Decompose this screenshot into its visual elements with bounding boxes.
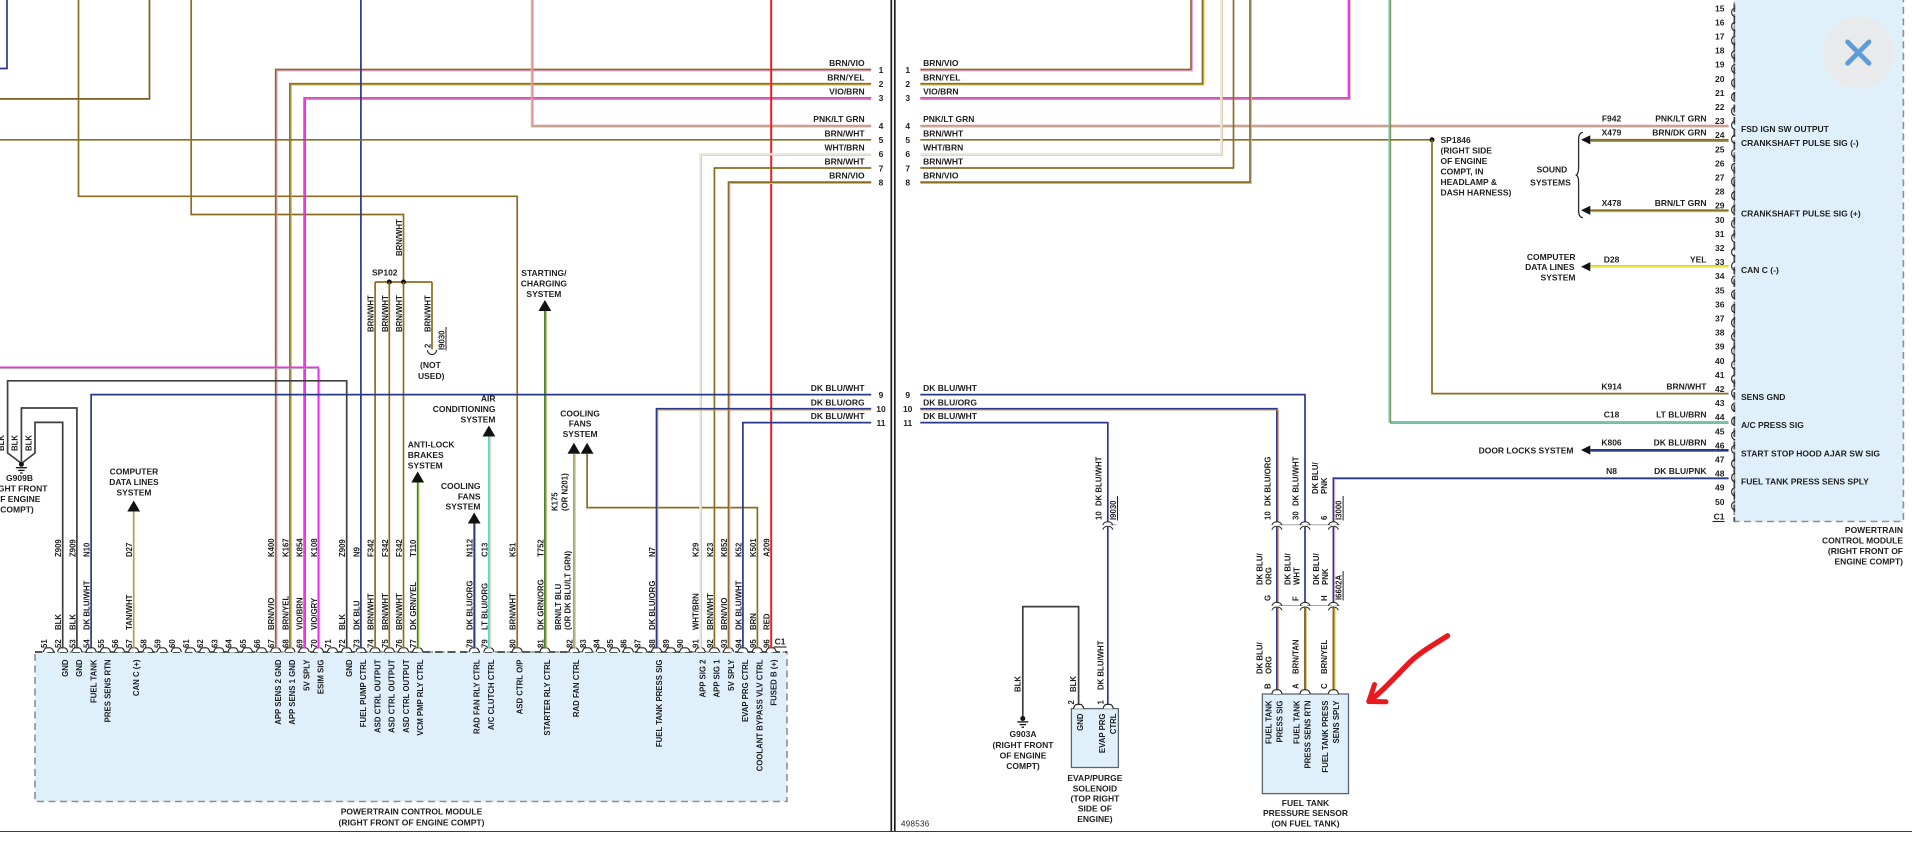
page divider between left and right schematic pages: [890, 0, 892, 832]
svg-text:42: 42: [1715, 384, 1725, 394]
svg-text:C1: C1: [775, 637, 786, 647]
svg-text:FANS: FANS: [458, 491, 481, 501]
svg-text:22: 22: [1715, 102, 1725, 112]
svg-text:8: 8: [879, 177, 884, 187]
svg-text:APP SENS 2 GND: APP SENS 2 GND: [274, 659, 283, 725]
svg-text:66: 66: [253, 639, 262, 648]
svg-text:FUEL TANK: FUEL TANK: [89, 659, 98, 703]
svg-text:LT BLU/BRN: LT BLU/BRN: [1656, 410, 1706, 420]
svg-text:C18: C18: [1604, 410, 1620, 420]
svg-text:DK BLU/WHT: DK BLU/WHT: [1094, 456, 1103, 506]
svg-text:8: 8: [905, 177, 910, 187]
svg-text:39: 39: [1715, 342, 1725, 352]
svg-text:21: 21: [1715, 88, 1725, 98]
svg-text:(RIGHT FRONT: (RIGHT FRONT: [993, 740, 1055, 750]
wire dk blu/wht row 11 to evap purge solenoid pin 1: [920, 423, 1108, 705]
svg-text:24: 24: [1715, 130, 1725, 140]
wire dk blu/wht row 9 to fuel tank pressure sensor pin A: [920, 395, 1305, 691]
svg-text:7: 7: [905, 163, 910, 173]
svg-text:BRN/YEL: BRN/YEL: [923, 72, 960, 82]
svg-text:ENGINE COMPT): ENGINE COMPT): [1835, 557, 1904, 567]
svg-text:(RIGHT FRONT OF ENGINE COMPT): (RIGHT FRONT OF ENGINE COMPT): [339, 818, 485, 828]
svg-text:YEL: YEL: [1690, 254, 1707, 264]
svg-text:SYSTEM: SYSTEM: [117, 488, 152, 498]
fuel tank pressure sensor box: [1262, 694, 1348, 794]
ground G909B symbol: [19, 462, 24, 467]
PCM left module box top edge: [35, 651, 787, 653]
svg-text:6: 6: [1320, 515, 1329, 520]
svg-text:(ON FUEL TANK): (ON FUEL TANK): [1271, 818, 1339, 828]
wire pnk/lt grn row 4 to PCM pin 23 F942: [920, 125, 1728, 127]
svg-text:GND: GND: [1076, 713, 1085, 731]
svg-text:FUEL TANK: FUEL TANK: [1282, 798, 1330, 808]
svg-text:61: 61: [182, 639, 191, 648]
svg-text:K175: K175: [551, 492, 560, 511]
svg-text:CHARGING: CHARGING: [521, 279, 568, 289]
svg-text:APP SENS 1 GND: APP SENS 1 GND: [288, 659, 297, 725]
arrow to computer data lines system (pin 33): [1581, 262, 1590, 271]
svg-text:DK BLU/ORG: DK BLU/ORG: [811, 397, 865, 407]
svg-text:27: 27: [1715, 173, 1725, 183]
evap purge solenoid box: [1071, 709, 1118, 768]
svg-text:19: 19: [1715, 60, 1725, 70]
arrow to sound systems (pin 24): [1581, 135, 1590, 144]
svg-text:C: C: [1320, 683, 1329, 689]
svg-text:11: 11: [877, 418, 886, 428]
svg-text:10: 10: [1094, 511, 1103, 520]
svg-text:FANS: FANS: [569, 419, 592, 429]
svg-text:RAD FAN RLY CTRL: RAD FAN RLY CTRL: [473, 659, 482, 734]
svg-text:OF ENGINE: OF ENGINE: [0, 494, 41, 504]
svg-text:38: 38: [1715, 328, 1725, 338]
wire red pin 96 FUSED B (+) from top edge: [770, 0, 772, 649]
wire brn pin 95 COOLANT BYPASS VLV CTRL: [587, 454, 757, 649]
svg-text:20: 20: [1715, 74, 1725, 84]
svg-text:APP SIG 1: APP SIG 1: [713, 659, 722, 698]
svg-text:SYSTEM: SYSTEM: [526, 289, 561, 299]
svg-text:EVAP/PURGE: EVAP/PURGE: [1067, 773, 1122, 783]
inline connector I6602A break on wire A: [1303, 603, 1307, 608]
wire brn/vio row 8 right page to top edge: [920, 0, 1250, 182]
svg-text:9: 9: [905, 390, 910, 400]
svg-text:K914: K914: [1601, 381, 1622, 391]
svg-text:41: 41: [1715, 370, 1725, 380]
svg-text:DK BLU/PNK: DK BLU/PNK: [1654, 466, 1707, 476]
svg-text:SYSTEMS: SYSTEMS: [1530, 177, 1571, 187]
wire brn/yel row 2 right page to top edge: [920, 0, 1202, 84]
wire brn/vio pin 67 APP SENS 2 GND to connector pin 1: [276, 70, 872, 649]
wire brn/lt blu pin 82 RAD FAN CTRL: [573, 454, 575, 649]
svg-text:DK BLU/WHT: DK BLU/WHT: [811, 383, 866, 393]
svg-text:48: 48: [1715, 469, 1725, 479]
svg-text:D28: D28: [1604, 254, 1620, 264]
svg-text:65: 65: [239, 639, 248, 648]
svg-text:FUSED B (+): FUSED B (+): [770, 659, 779, 706]
svg-text:H: H: [1320, 595, 1329, 601]
svg-text:SYSTEM: SYSTEM: [563, 429, 598, 439]
svg-text:(OR DK BLU/LT GRN): (OR DK BLU/LT GRN): [564, 550, 573, 630]
svg-text:26: 26: [1715, 158, 1725, 168]
svg-text:30: 30: [1292, 511, 1301, 520]
PCM right module box: [1734, 0, 1903, 522]
svg-text:DK BLU/: DK BLU/: [1284, 553, 1293, 585]
svg-text:I9030: I9030: [1109, 500, 1118, 520]
svg-text:40: 40: [1715, 356, 1725, 366]
svg-text:4: 4: [879, 121, 884, 131]
svg-text:SOUND: SOUND: [1537, 164, 1568, 174]
svg-text:10: 10: [1263, 511, 1272, 520]
svg-text:37: 37: [1715, 314, 1725, 324]
svg-text:PNK/LT GRN: PNK/LT GRN: [923, 114, 974, 124]
svg-text:FUEL TANK PRESS SIG: FUEL TANK PRESS SIG: [655, 660, 664, 748]
svg-text:G903A: G903A: [1010, 729, 1037, 739]
svg-text:(NOT: (NOT: [420, 360, 442, 370]
svg-text:47: 47: [1715, 455, 1725, 465]
svg-text:POWERTRAIN: POWERTRAIN: [1845, 525, 1903, 535]
arrow to cooling fans system (pin 78): [468, 513, 481, 524]
svg-text:56: 56: [111, 639, 120, 648]
wire lt blu/brn C18 from top edge to PCM pin 44 A/C PRESS SIG: [1389, 0, 1728, 422]
svg-text:87: 87: [633, 639, 642, 648]
wire vio/gry pin 70 ESIM SIG to left edge: [0, 367, 318, 648]
svg-text:DK BLU/WHT: DK BLU/WHT: [1292, 456, 1301, 506]
svg-text:5V SPLY: 5V SPLY: [302, 659, 311, 691]
svg-text:36: 36: [1715, 299, 1725, 309]
svg-text:X478: X478: [1602, 198, 1622, 208]
svg-text:FUEL TANK: FUEL TANK: [1293, 700, 1302, 744]
svg-text:BRN/LT GRN: BRN/LT GRN: [1655, 198, 1707, 208]
wire blk pin 72 to ground G909B: [8, 381, 347, 649]
svg-text:SIDE OF: SIDE OF: [1078, 804, 1112, 814]
svg-text:BLK: BLK: [11, 435, 20, 451]
svg-text:COMPUTER: COMPUTER: [1527, 252, 1576, 262]
svg-text:60: 60: [168, 639, 177, 648]
svg-text:35: 35: [1715, 285, 1725, 295]
svg-text:DK BLU/: DK BLU/: [1255, 553, 1264, 585]
inline connector I9030 link rule: [1108, 524, 1117, 526]
svg-text:28: 28: [1715, 187, 1725, 197]
svg-text:CAN C (+): CAN C (+): [132, 659, 141, 696]
svg-text:BRN/WHT: BRN/WHT: [395, 295, 404, 332]
wire brn/wht pin 92 APP SIG 1 to connector pin 7: [714, 168, 871, 649]
svg-text:COMPT, IN: COMPT, IN: [1441, 167, 1484, 177]
wire brn/wht from top edge to splice SP102: [191, 0, 403, 282]
svg-text:POWERTRAIN CONTROL MODULE: POWERTRAIN CONTROL MODULE: [341, 807, 483, 817]
svg-text:COMPT): COMPT): [1006, 761, 1040, 771]
svg-text:23: 23: [1715, 116, 1725, 126]
svg-text:DOOR LOCKS SYSTEM: DOOR LOCKS SYSTEM: [1479, 445, 1574, 455]
svg-text:44: 44: [1715, 412, 1725, 422]
splice SP102 bus: [375, 281, 432, 283]
arrow to door locks system (pin 46): [1581, 445, 1590, 454]
svg-text:ORG: ORG: [1264, 567, 1273, 585]
splice SP102 dot B: [401, 280, 406, 285]
arrow to sound systems (pin 29): [1581, 206, 1590, 215]
svg-text:WHT/BRN: WHT/BRN: [824, 143, 864, 153]
svg-text:RAD FAN CTRL: RAD FAN CTRL: [572, 659, 581, 717]
svg-text:ANTI-LOCK: ANTI-LOCK: [408, 440, 456, 450]
svg-text:BRN/LT BLU: BRN/LT BLU: [554, 583, 563, 630]
svg-text:I9030: I9030: [438, 330, 447, 350]
svg-text:34: 34: [1715, 271, 1725, 281]
ground G903A symbol: [1020, 716, 1025, 721]
svg-text:25: 25: [1715, 144, 1725, 154]
svg-text:C1: C1: [1714, 512, 1725, 522]
svg-text:SYSTEM: SYSTEM: [1541, 272, 1576, 282]
inline connector I6602A break on wire C: [1331, 603, 1335, 608]
svg-text:DK BLU/WHT: DK BLU/WHT: [923, 411, 978, 421]
wire dk blu stub at top-left corner: [0, 0, 7, 69]
svg-text:BRN/WHT: BRN/WHT: [923, 157, 964, 167]
svg-text:EVAP PRG: EVAP PRG: [1098, 714, 1107, 754]
inline connector I9030 break on evap wire: [1106, 522, 1110, 527]
svg-text:64: 64: [225, 639, 234, 648]
svg-text:COOLANT BYPASS VLV CTRL: COOLANT BYPASS VLV CTRL: [756, 659, 765, 771]
svg-text:2: 2: [905, 79, 910, 89]
svg-text:6: 6: [879, 149, 884, 159]
svg-text:HEADLAMP &: HEADLAMP &: [1441, 177, 1498, 187]
svg-text:CAN C (-): CAN C (-): [1741, 265, 1779, 275]
svg-text:B: B: [1263, 683, 1272, 689]
svg-text:DK BLU/BRN: DK BLU/BRN: [1654, 438, 1707, 448]
svg-text:COOLING: COOLING: [441, 481, 481, 491]
svg-text:30: 30: [1715, 215, 1725, 225]
svg-text:PRESSURE SENSOR: PRESSURE SENSOR: [1263, 808, 1348, 818]
svg-text:BRN/YEL: BRN/YEL: [1320, 640, 1329, 674]
svg-text:50: 50: [1715, 497, 1725, 507]
svg-text:GND: GND: [75, 659, 84, 677]
svg-text:G909B: G909B: [6, 473, 33, 483]
svg-text:BRN/VIO: BRN/VIO: [923, 58, 959, 68]
svg-text:ASD CTRL OUTPUT: ASD CTRL OUTPUT: [402, 659, 411, 733]
svg-text:71: 71: [324, 639, 333, 648]
svg-text:5: 5: [879, 135, 884, 145]
wire brn/dk grn X479 to PCM pin 24 CRANKSHAFT PULSE SIG (-): [1590, 139, 1728, 141]
svg-text:(RIGHT SIDE: (RIGHT SIDE: [1441, 146, 1493, 156]
wire yel D28 to PCM pin 33 CAN C (-): [1590, 266, 1728, 268]
inline connector I3000 break on wire C: [1331, 522, 1335, 527]
svg-text:STARTING/: STARTING/: [521, 268, 567, 278]
wire tan/wht pin 57 CAN C (+): [133, 512, 135, 649]
arrow to air conditioning system: [483, 426, 496, 437]
svg-text:PRESS SIG: PRESS SIG: [1276, 701, 1285, 743]
svg-text:ASD CTRL OUTPUT: ASD CTRL OUTPUT: [388, 659, 397, 733]
svg-text:BRN/VIO: BRN/VIO: [829, 171, 865, 181]
svg-text:33: 33: [1715, 257, 1725, 267]
svg-text:5V SPLY: 5V SPLY: [727, 659, 736, 691]
svg-text:DATA LINES: DATA LINES: [1525, 262, 1575, 272]
svg-text:BLK: BLK: [25, 435, 34, 451]
svg-text:DATA LINES: DATA LINES: [109, 477, 159, 487]
svg-text:VIO/BRN: VIO/BRN: [829, 86, 864, 96]
svg-text:ENGINE): ENGINE): [1077, 814, 1113, 824]
svg-text:VIO/BRN: VIO/BRN: [923, 86, 958, 96]
svg-text:A: A: [1292, 683, 1301, 689]
svg-text:CTRL: CTRL: [1109, 713, 1118, 734]
svg-text:10: 10: [876, 404, 886, 414]
svg-text:A/C CLUTCH CTRL: A/C CLUTCH CTRL: [487, 659, 496, 730]
wire lt blu/org pin 79 A/C CLUTCH CTRL: [488, 437, 490, 649]
wire brn/wht SP102 to pin 74: [374, 282, 376, 649]
arrow to computer data lines system: [127, 501, 140, 512]
svg-text:APP SIG 2: APP SIG 2: [699, 659, 708, 698]
svg-text:F942: F942: [1602, 113, 1622, 123]
svg-text:G: G: [1263, 595, 1272, 601]
svg-text:FUEL TANK PRESS SENS SPLY: FUEL TANK PRESS SENS SPLY: [1741, 477, 1869, 487]
svg-text:1: 1: [879, 65, 884, 75]
wire brn/wht row 5 from left edge to connector pin 5: [0, 139, 871, 141]
svg-text:4: 4: [905, 121, 910, 131]
svg-text:2: 2: [879, 79, 884, 89]
wire dk blu/pnk N8 PCM pin 48 to fuel tank pressure sensor pin C: [1333, 478, 1728, 690]
svg-text:PRESS SENS RTN: PRESS SENS RTN: [1304, 700, 1313, 768]
svg-text:(TOP RIGHT: (TOP RIGHT: [1070, 794, 1120, 804]
svg-text:55: 55: [97, 639, 106, 648]
wire dk grn/yel pin 77 VCM PMP RLY CTRL: [417, 483, 419, 649]
svg-text:X479: X479: [1602, 128, 1622, 138]
wire dk blu pin 73 FUEL PUMP CTRL to top edge: [360, 0, 362, 649]
sound systems brace: [1576, 133, 1583, 218]
svg-text:VCM PMP RLY CTRL: VCM PMP RLY CTRL: [416, 659, 425, 735]
sensor pin sockets: [1272, 690, 1282, 694]
wire brn/wht row 7 right page to top edge: [920, 0, 1233, 168]
svg-text:SP102: SP102: [372, 267, 398, 277]
splice SP1846 dot: [1430, 137, 1435, 142]
svg-text:BLK: BLK: [1013, 676, 1022, 692]
svg-text:31: 31: [1715, 229, 1725, 239]
wire dk blu/brn K806 to PCM pin 46 START STOP HOOD AJAR SW SIG: [1590, 449, 1728, 451]
svg-text:BRN/WHT: BRN/WHT: [1666, 381, 1707, 391]
svg-text:BRN/TAN: BRN/TAN: [1292, 639, 1301, 674]
svg-text:45: 45: [1715, 426, 1725, 436]
svg-text:63: 63: [210, 639, 219, 648]
inline connector I3000 break on wire A: [1303, 522, 1307, 527]
wire brn/wht SP102 to pin 75: [388, 282, 390, 649]
svg-text:OF ENGINE: OF ENGINE: [1000, 751, 1047, 761]
svg-text:46: 46: [1715, 440, 1725, 450]
wire dk blu/org row 10 to fuel tank pressure sensor pin B: [920, 409, 1277, 691]
svg-text:84: 84: [593, 639, 602, 648]
svg-text:DK BLU/: DK BLU/: [1312, 553, 1321, 585]
svg-text:SENS GND: SENS GND: [1741, 392, 1785, 402]
svg-text:11: 11: [903, 418, 912, 428]
svg-text:SOLENOID: SOLENOID: [1073, 783, 1117, 793]
svg-text:CRANKSHAFT PULSE SIG (+): CRANKSHAFT PULSE SIG (+): [1741, 209, 1861, 219]
svg-text:FUEL TANK PRESS: FUEL TANK PRESS: [1321, 701, 1330, 773]
svg-text:I3000: I3000: [1334, 500, 1343, 520]
svg-text:A/C PRESS SIG: A/C PRESS SIG: [1741, 420, 1804, 430]
svg-text:STARTER RLY CTRL: STARTER RLY CTRL: [543, 659, 552, 735]
wire blk evap solenoid pin 2 to ground G903A: [1023, 607, 1079, 716]
wire brn/wht from top edge to pin 80 ASD CTRL O/P: [79, 0, 518, 649]
wire brn/tan lower segment to sensor pin A: [1304, 608, 1306, 691]
svg-text:86: 86: [620, 639, 629, 648]
svg-text:9: 9: [879, 390, 884, 400]
svg-text:WHT/BRN: WHT/BRN: [923, 143, 963, 153]
arrow to starting/charging system: [539, 300, 552, 311]
svg-text:2: 2: [424, 343, 433, 348]
svg-text:1: 1: [905, 65, 910, 75]
wire brn/wht row 5 to splice SP1846: [920, 139, 1432, 141]
svg-text:SYSTEM: SYSTEM: [461, 415, 496, 425]
inline connector I6602A break on wire B: [1275, 603, 1279, 608]
svg-text:3: 3: [905, 93, 910, 103]
PCM left connector pin sockets row (pins 51-96): [43, 648, 53, 652]
wire brn/wht K914 SP1846 to PCM pin 42 SENS GND: [1432, 140, 1729, 394]
svg-text:BRN/VIO: BRN/VIO: [923, 171, 959, 181]
svg-text:GND: GND: [345, 659, 354, 677]
svg-text:PNK: PNK: [1320, 477, 1329, 494]
wire brn from left edge up to top edge: [0, 0, 150, 99]
svg-text:BRN/DK GRN: BRN/DK GRN: [1652, 128, 1706, 138]
svg-text:BRN/WHT: BRN/WHT: [824, 157, 865, 167]
svg-text:10: 10: [903, 404, 913, 414]
svg-text:43: 43: [1715, 398, 1725, 408]
PCM right module box left edge: [1733, 0, 1735, 522]
svg-text:6: 6: [905, 149, 910, 159]
svg-text:DK BLU/WHT: DK BLU/WHT: [923, 383, 978, 393]
wire dk blu/wht pin 54 PRES SENS RTN to connector pin 9: [91, 395, 871, 649]
svg-text:PNK: PNK: [1321, 568, 1330, 585]
svg-text:16: 16: [1715, 17, 1725, 27]
svg-text:BRN/YEL: BRN/YEL: [827, 72, 864, 82]
svg-text:(OR N201): (OR N201): [561, 473, 570, 511]
svg-text:PNK/LT GRN: PNK/LT GRN: [813, 114, 864, 124]
svg-text:WHT: WHT: [1293, 567, 1302, 585]
svg-text:85: 85: [606, 639, 615, 648]
inline connector I3000 link rule: [1277, 524, 1340, 526]
svg-text:CONDITIONING: CONDITIONING: [433, 404, 496, 414]
svg-text:DK BLU/WHT: DK BLU/WHT: [1096, 640, 1105, 690]
svg-text:COMPT): COMPT): [0, 505, 34, 515]
svg-text:32: 32: [1715, 243, 1725, 253]
svg-text:PRES SENS RTN: PRES SENS RTN: [104, 659, 113, 722]
arrow to cooling fans system (pin 82): [568, 443, 581, 454]
svg-text:BLK: BLK: [0, 435, 6, 451]
svg-text:89: 89: [662, 639, 671, 648]
wire dk blu/org pin 88 FUEL TANK PRESS SIG to connector pin 10: [657, 409, 872, 649]
wire dk blu/org pin 78 RAD FAN RLY CTRL: [473, 524, 475, 649]
svg-text:DK BLU/ORG: DK BLU/ORG: [923, 397, 977, 407]
svg-text:498536: 498536: [901, 820, 930, 829]
wire brn/yel pin 68 APP SENS 1 GND to connector pin 2: [290, 84, 871, 649]
svg-text:(RIGHT FRONT OF: (RIGHT FRONT OF: [1828, 546, 1903, 556]
svg-text:90: 90: [676, 639, 685, 648]
svg-text:GND: GND: [61, 659, 70, 677]
svg-text:2: 2: [1067, 700, 1076, 705]
svg-text:DK BLU/WHT: DK BLU/WHT: [811, 411, 866, 421]
inline connector I3000 break on wire B: [1275, 522, 1279, 527]
svg-text:59: 59: [154, 639, 163, 648]
svg-text:START STOP HOOD AJAR SW SIG: START STOP HOOD AJAR SW SIG: [1741, 448, 1880, 458]
wire brn/wht SP102 not-used stub: [431, 282, 433, 350]
svg-text:K806: K806: [1601, 438, 1622, 448]
wire dk blu/wht pin 94 EVAP PRG CTRL to connector pin 11: [743, 423, 871, 649]
page bottom border rule: [0, 831, 1912, 833]
svg-text:DK BLU/: DK BLU/: [1255, 642, 1264, 674]
svg-text:7: 7: [879, 163, 884, 173]
svg-text:USED): USED): [418, 371, 445, 381]
evap solenoid pin sockets: [1074, 704, 1084, 708]
svg-text:BRN/WHT: BRN/WHT: [824, 128, 865, 138]
svg-text:I6602A: I6602A: [1334, 574, 1343, 600]
svg-text:CRANKSHAFT PULSE SIG (-): CRANKSHAFT PULSE SIG (-): [1741, 138, 1859, 148]
wire brn/vio row 1 right page to top edge: [920, 0, 1191, 70]
splice SP102 dot A: [387, 280, 392, 285]
svg-text:FUEL PUMP CTRL: FUEL PUMP CTRL: [359, 659, 368, 727]
inline connector I6602A link rule: [1277, 605, 1340, 607]
svg-text:49: 49: [1715, 483, 1725, 493]
